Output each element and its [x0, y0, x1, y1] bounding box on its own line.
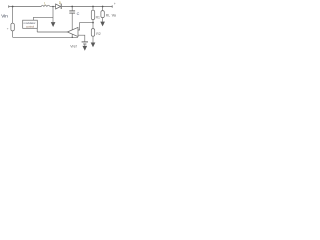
wire Vin source to ground rail: [12, 31, 14, 38]
wire lower input to reference: [78, 35, 85, 41]
ground arrow under reference: [83, 46, 88, 51]
resistor R1: [91, 10, 94, 19]
control box U2: [23, 20, 38, 28]
node input junction: [12, 6, 14, 8]
wire R1 to R2: [92, 20, 94, 29]
op-amp comparator U1: [67, 27, 78, 36]
wire base drive from control box: [33, 17, 53, 20]
wire top rail right segment: [62, 6, 112, 8]
node capacitor junction: [71, 6, 73, 8]
svg-text:Vo: Vo: [112, 14, 116, 18]
node capacitor ground junction: [72, 37, 73, 38]
ground arrow under R2: [91, 43, 96, 48]
battery reference Vref: [82, 41, 88, 43]
svg-text:Vin: Vin: [1, 13, 8, 18]
node load junction: [102, 6, 104, 8]
inductor L: [41, 5, 50, 6]
svg-text:control: control: [26, 24, 34, 28]
node switch junction: [52, 6, 54, 8]
wire bottom ground rail: [13, 36, 78, 38]
resistor R2: [91, 29, 94, 37]
node feedback tap: [92, 22, 94, 24]
wire Vin branch down: [12, 7, 14, 24]
resistor RL load: [101, 11, 104, 18]
wire R2 to ground: [92, 36, 94, 42]
wire comparator output to control box: [37, 28, 67, 32]
svg-text:L: L: [44, 1, 46, 5]
wire to resistor R1: [92, 7, 94, 11]
wire inductor to diode: [50, 6, 56, 8]
wire to load resistor: [102, 7, 104, 11]
svg-text:+: +: [114, 2, 116, 6]
wire top rail left segment: [9, 6, 42, 8]
terminal tick input: [8, 5, 10, 7]
capacitor C: [71, 7, 73, 11]
svg-text:Vref: Vref: [70, 44, 76, 48]
wire upper input from divider: [78, 23, 93, 30]
svg-text:R2: R2: [96, 32, 101, 36]
diode D1: [56, 4, 61, 9]
transistor Q1 emitter ground arrow: [52, 20, 54, 22]
svg-text:C: C: [77, 12, 80, 16]
wire load to ground: [102, 18, 104, 22]
terminal tick output: [111, 5, 113, 7]
ground arrow under load: [100, 22, 105, 27]
svg-text:R1: R1: [96, 16, 100, 20]
node divider junction: [92, 6, 94, 8]
voltage source Vin: [11, 23, 14, 31]
svg-text:RL: RL: [106, 13, 110, 17]
svg-text:+: +: [7, 27, 9, 31]
wire capacitor to ground rail: [71, 13, 73, 37]
transistor Q1 collector wire: [52, 7, 54, 20]
